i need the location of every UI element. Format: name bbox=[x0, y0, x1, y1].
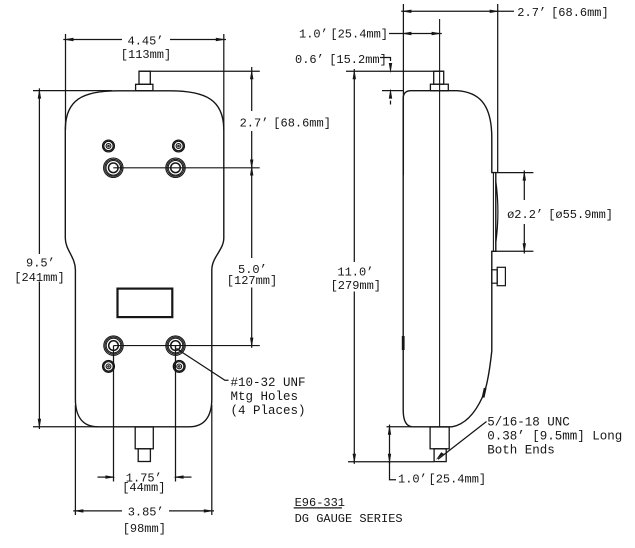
svg-text:[113mm]: [113mm] bbox=[121, 48, 171, 62]
svg-text:[ø55.9mm]: [ø55.9mm] bbox=[548, 208, 613, 222]
svg-text:[44mm]: [44mm] bbox=[122, 481, 165, 495]
svg-text:[98mm]: [98mm] bbox=[123, 522, 166, 536]
svg-text:9.5’: 9.5’ bbox=[26, 256, 55, 270]
svg-text:1.0’: 1.0’ bbox=[398, 473, 427, 487]
svg-text:[15.2mm]: [15.2mm] bbox=[329, 53, 387, 67]
svg-text:1.0’: 1.0’ bbox=[299, 28, 328, 42]
svg-text:[279mm]: [279mm] bbox=[331, 279, 381, 293]
svg-text:3.85’: 3.85’ bbox=[128, 506, 164, 520]
svg-text:Mtg Holes: Mtg Holes bbox=[231, 390, 299, 404]
svg-text:[127mm]: [127mm] bbox=[227, 274, 277, 288]
svg-text:#10-32 UNF: #10-32 UNF bbox=[231, 376, 306, 390]
svg-text:[68.6mm]: [68.6mm] bbox=[551, 6, 609, 20]
svg-text:0.6’: 0.6’ bbox=[295, 53, 324, 67]
svg-text:[25.4mm]: [25.4mm] bbox=[330, 28, 388, 42]
svg-text:ø2.2’: ø2.2’ bbox=[507, 208, 543, 222]
svg-text:DG GAUGE SERIES: DG GAUGE SERIES bbox=[295, 512, 403, 526]
svg-text:[25.4mm]: [25.4mm] bbox=[429, 473, 487, 487]
svg-text:(4 Places): (4 Places) bbox=[231, 404, 306, 418]
svg-text:Both Ends: Both Ends bbox=[487, 444, 555, 458]
svg-text:11.0’: 11.0’ bbox=[337, 266, 373, 280]
svg-text:5/16-18 UNC: 5/16-18 UNC bbox=[487, 416, 570, 430]
svg-text:2.7’: 2.7’ bbox=[240, 117, 269, 131]
svg-text:[241mm]: [241mm] bbox=[14, 271, 64, 285]
svg-text:[68.6mm]: [68.6mm] bbox=[273, 117, 331, 131]
svg-text:4.45’: 4.45’ bbox=[128, 34, 164, 48]
svg-text:2.7’: 2.7’ bbox=[517, 6, 546, 20]
svg-text:0.38’ [9.5mm] Long: 0.38’ [9.5mm] Long bbox=[487, 430, 622, 444]
